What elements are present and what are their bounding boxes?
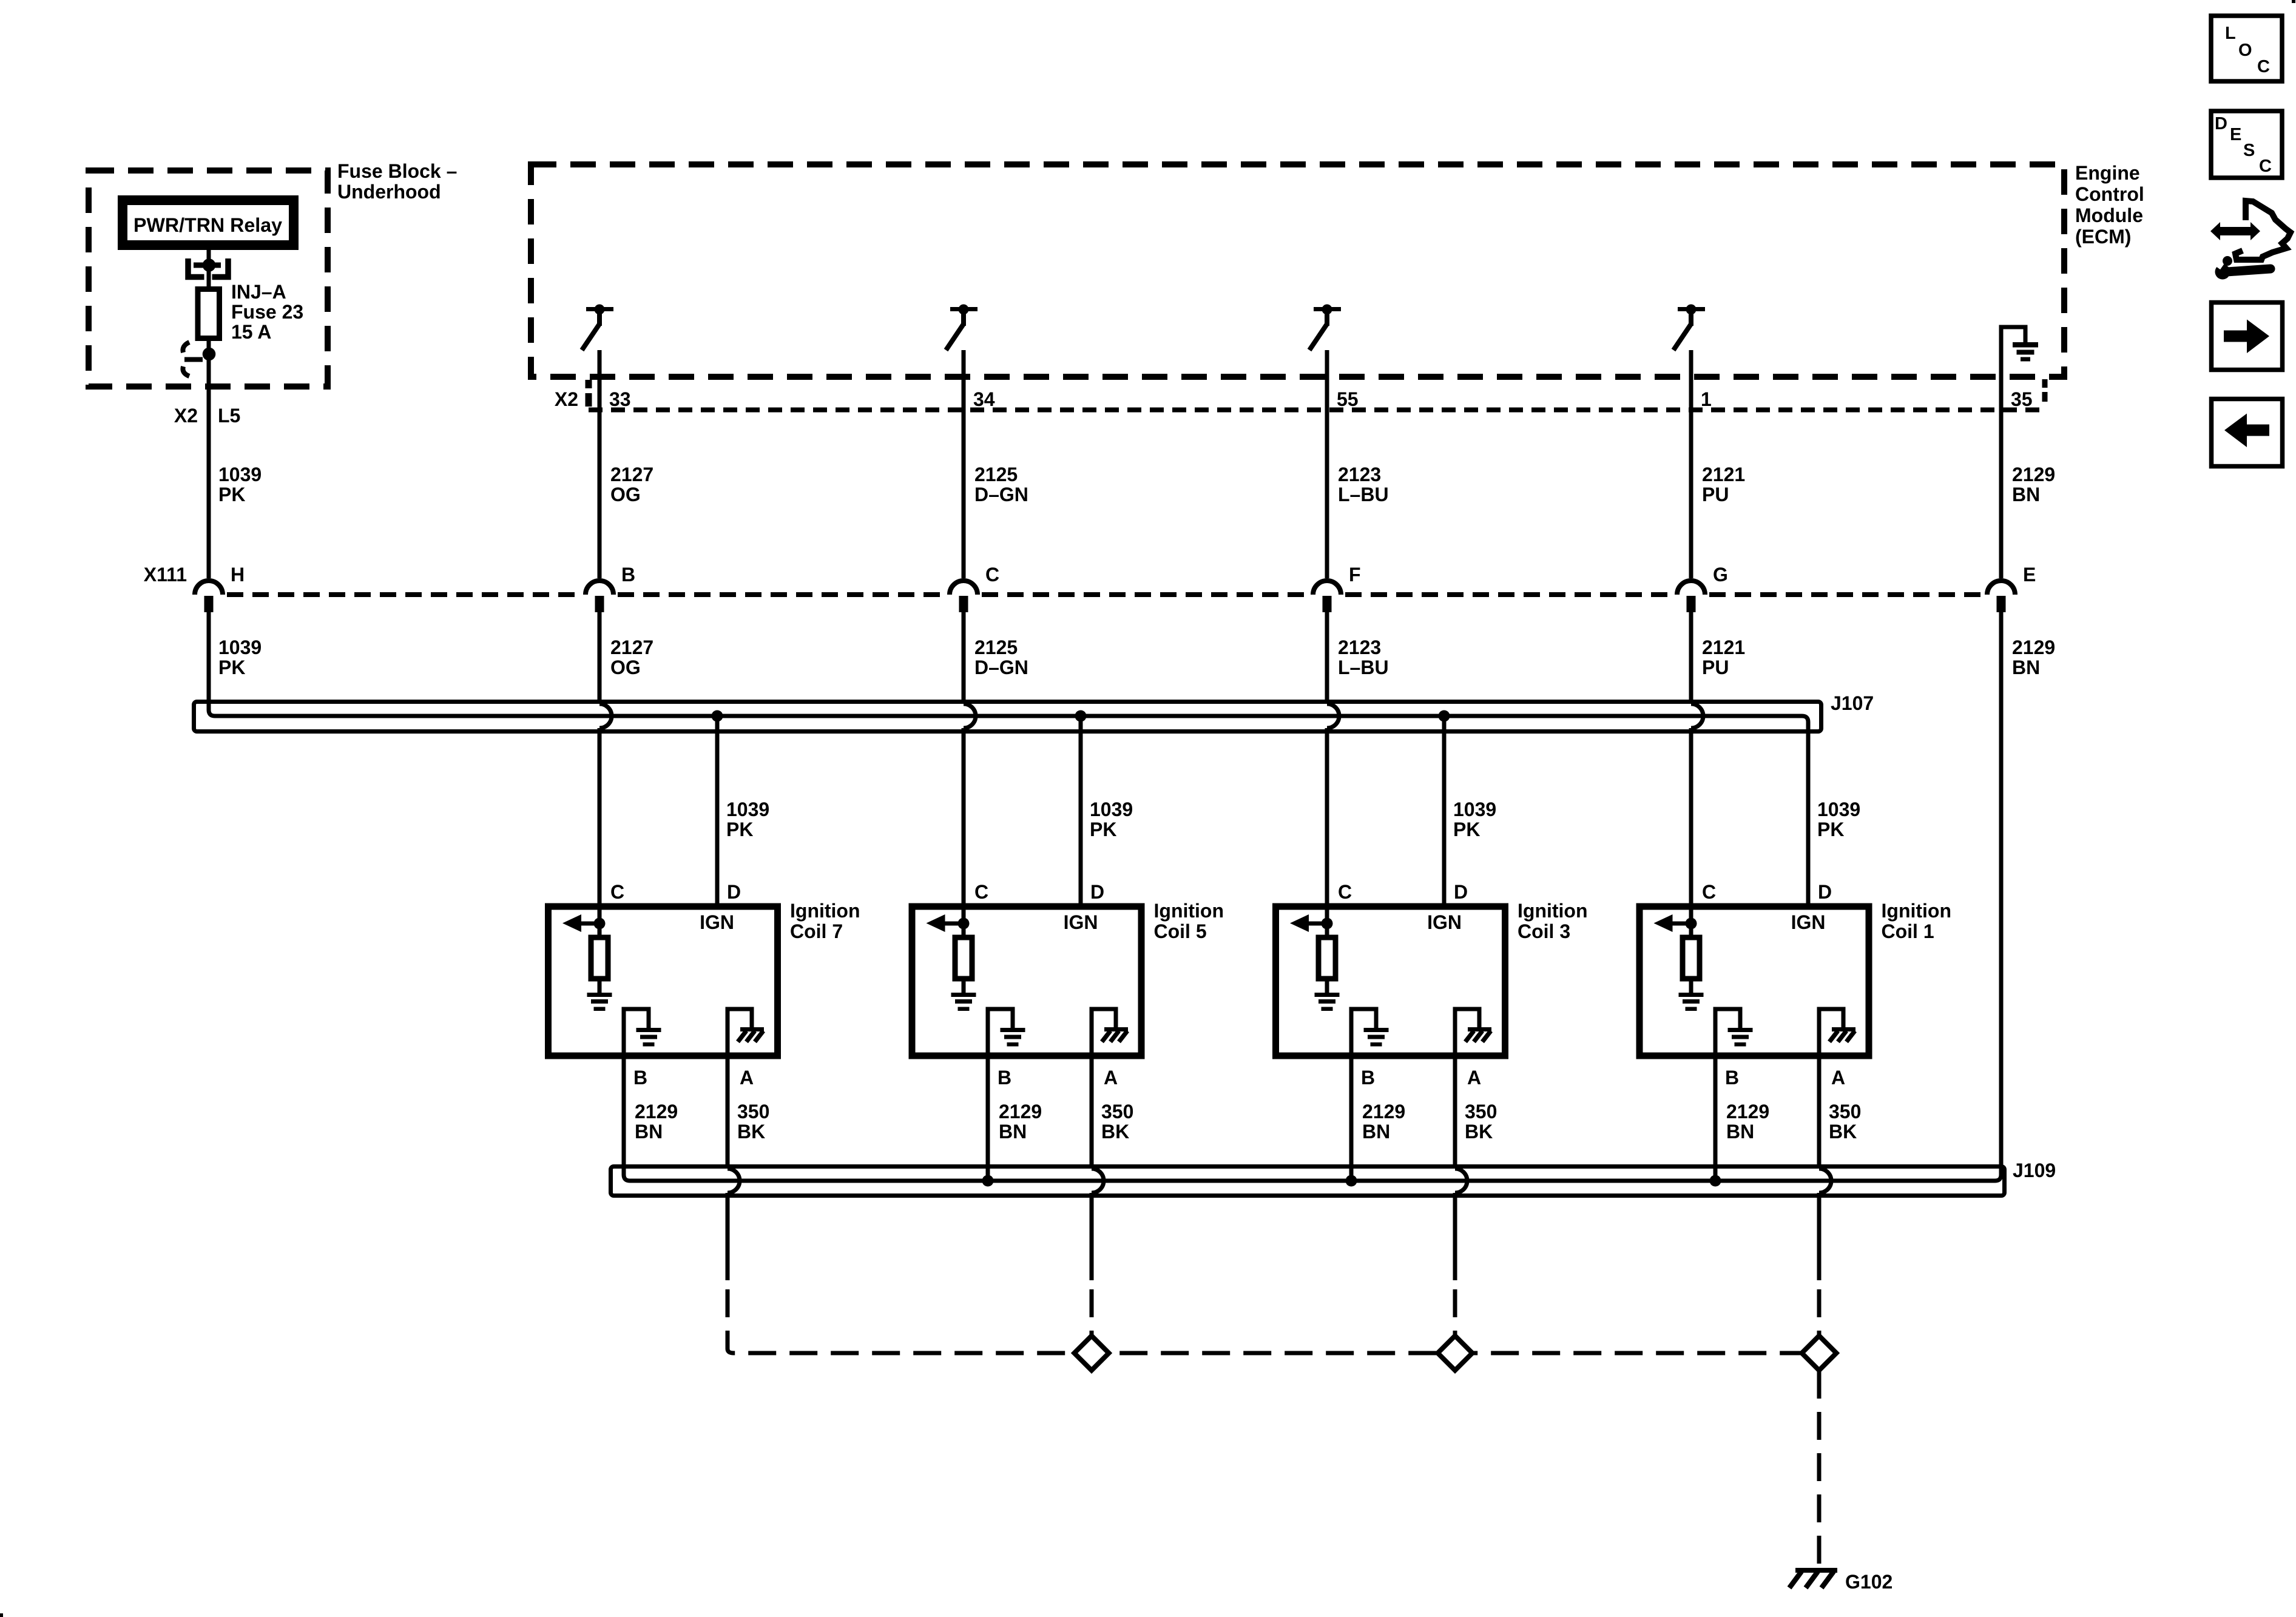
X111 pin H [195, 581, 223, 595]
coil 3 pin D [1454, 881, 1468, 903]
svg-text:BK: BK [737, 1121, 765, 1143]
coil 3 pin A chassis ground [1455, 1009, 1479, 1059]
coil 1 internal ground [1679, 993, 1704, 1011]
svg-text:1039: 1039 [218, 464, 262, 485]
svg-text:A: A [1831, 1067, 1845, 1089]
label Fuse Block - Underhood [337, 160, 457, 203]
X111 pin C [950, 581, 977, 595]
svg-text:2129: 2129 [1362, 1101, 1405, 1122]
J109 splice dot at x=2827 [1714, 1059, 1718, 1181]
svg-text:BN: BN [1726, 1121, 1754, 1143]
dashed ground wires below J109 [728, 1289, 1819, 1353]
svg-text:F: F [1349, 564, 1361, 586]
wire 1039 PK fuse block to X111 H [207, 354, 211, 578]
wire relay to fuse [207, 250, 211, 289]
coil 5 pin B hook ground [988, 1009, 1013, 1059]
svg-text:2129: 2129 [999, 1101, 1042, 1122]
svg-text:PWR/TRN Relay: PWR/TRN Relay [133, 214, 282, 236]
wire from switch 2 to X111 [962, 350, 966, 578]
switch driver 1 [586, 307, 613, 311]
svg-text:Coil 7: Coil 7 [790, 920, 843, 942]
svg-text:2123: 2123 [1338, 636, 1381, 658]
svg-text:1: 1 [1701, 388, 1712, 410]
icon DESC box [2211, 111, 2282, 178]
J107 splice dot and branch at x=2380 [1439, 711, 1450, 722]
svg-text:2123: 2123 [1338, 464, 1381, 485]
svg-text:IGN: IGN [1064, 911, 1098, 933]
svg-text:Ignition: Ignition [790, 900, 860, 922]
coil 3 pin C [1338, 881, 1352, 903]
svg-text:OG: OG [610, 484, 641, 505]
fuse INJ-A Fuse 23 15 A [207, 289, 211, 354]
icon arrow right box [2212, 303, 2283, 370]
svg-text:INJ–A: INJ–A [231, 281, 286, 303]
coil 5 pin letters B A [998, 1067, 1118, 1089]
svg-text:PK: PK [1453, 819, 1480, 840]
coil 3 wire 2129 BN / 350 BK labels [1362, 1101, 1497, 1143]
coil 7 internal ground [587, 993, 612, 1011]
svg-text:Coil 3: Coil 3 [1518, 920, 1570, 942]
svg-text:Engine: Engine [2075, 162, 2140, 184]
svg-text:1039: 1039 [218, 636, 262, 658]
svg-text:BN: BN [635, 1121, 663, 1143]
fuse block underhood dashed box [89, 170, 328, 387]
X111 pin F [1313, 581, 1341, 595]
coil 1 internal resistor [1689, 923, 1693, 937]
coil 7 internal resistor [598, 923, 602, 937]
coil 1 pin A chassis ground [1819, 1009, 1843, 1059]
coil 1 pin D [1818, 881, 1832, 903]
coil 5 internal resistor [962, 923, 966, 937]
ignition coil 3 box [1276, 906, 1505, 1056]
J109 splice dot at x=2227 [1349, 1059, 1354, 1181]
svg-text:1039: 1039 [1453, 798, 1496, 820]
svg-text:15 A: 15 A [231, 321, 271, 343]
svg-text:Coil 5: Coil 5 [1154, 920, 1207, 942]
svg-text:E: E [2230, 125, 2241, 144]
svg-text:OG: OG [610, 657, 641, 678]
svg-text:D: D [727, 881, 741, 903]
wire from switch 1 to X111 [598, 350, 602, 578]
svg-text:L–BU: L–BU [1338, 657, 1389, 678]
splice pack J107 [194, 702, 1822, 732]
svg-text:C: C [610, 881, 624, 903]
coil 1 wire 2129 BN / 350 BK labels [1726, 1101, 1861, 1143]
wire hop over J107 at x=988 [598, 612, 602, 704]
svg-text:L–BU: L–BU [1338, 484, 1389, 505]
icon hand with double arrow and wrench [2210, 222, 2260, 240]
svg-text:A: A [740, 1067, 754, 1089]
coil 3 internal ground [1315, 993, 1340, 1011]
svg-text:Module: Module [2075, 204, 2143, 226]
svg-text:IGN: IGN [1427, 911, 1462, 933]
wire hop over J107 at x=2787 [1689, 612, 1693, 704]
svg-text:35: 35 [2011, 388, 2033, 410]
coil 3 internal resistor [1325, 923, 1329, 937]
switch driver 3 [1314, 307, 1341, 311]
J109 splice dot at x=1628 [986, 1059, 990, 1181]
svg-text:BN: BN [1362, 1121, 1390, 1143]
label Engine Control Module (ECM) [2075, 162, 2144, 248]
connector X2 row at ECM [555, 388, 578, 410]
svg-text:2129: 2129 [2012, 636, 2055, 658]
svg-text:IGN: IGN [700, 911, 734, 933]
svg-text:2125: 2125 [974, 636, 1018, 658]
svg-text:X111: X111 [144, 564, 187, 586]
svg-text:C: C [2259, 157, 2272, 176]
wire 1039 PK H into J107 and out to coil1 D [209, 612, 1808, 909]
wire A hop over J109 at x=1799 [1090, 1059, 1094, 1169]
ground splice diamonds [1075, 1336, 1109, 1371]
svg-text:H: H [231, 564, 245, 586]
svg-text:E: E [2023, 564, 2036, 586]
svg-text:BK: BK [1465, 1121, 1493, 1143]
coil 7 pin B hook ground [624, 1009, 649, 1059]
coil 7 pin letters B A [633, 1067, 754, 1089]
svg-text:B: B [998, 1067, 1011, 1089]
svg-text:Control: Control [2075, 183, 2144, 205]
svg-text:PK: PK [218, 484, 245, 505]
svg-text:G: G [1713, 564, 1728, 586]
lower wire labels [218, 636, 2055, 678]
svg-text:Underhood: Underhood [337, 181, 441, 203]
X111 pin B [586, 581, 613, 595]
coil 5 internal ground [951, 993, 976, 1011]
svg-text:350: 350 [737, 1101, 769, 1122]
coil 3 internal arrow [1306, 922, 1327, 926]
svg-text:350: 350 [1465, 1101, 1497, 1122]
svg-text:55: 55 [1337, 388, 1359, 410]
X111 pin E [1987, 581, 2015, 595]
ground G102 chassis symbol [1795, 1568, 1837, 1573]
dashed wire to G102 [1817, 1371, 1822, 1568]
wire hop over J107 at x=2187 [1325, 612, 1329, 704]
clip symbol at fuse output [183, 342, 203, 376]
branch labels 1039 PK [726, 798, 1860, 840]
svg-text:BK: BK [1101, 1121, 1129, 1143]
coil 7 pin D [727, 881, 741, 903]
coil 3 pin B hook ground [1351, 1009, 1376, 1059]
coil 7 internal arrow [578, 922, 599, 926]
svg-text:Ignition: Ignition [1882, 900, 1952, 922]
connector X2 pin L5 labels [174, 405, 240, 427]
svg-text:Ignition: Ignition [1154, 900, 1224, 922]
svg-text:IGN: IGN [1791, 911, 1826, 933]
svg-text:L5: L5 [218, 405, 240, 427]
svg-text:2121: 2121 [1702, 464, 1745, 485]
svg-text:C: C [974, 881, 988, 903]
svg-text:C: C [985, 564, 999, 586]
Engine Control Module dashed box [531, 164, 2064, 377]
svg-text:L: L [2225, 24, 2236, 43]
X111 dashed line [227, 592, 581, 597]
wire hop over J107 at x=1588 [962, 612, 966, 704]
svg-text:G102: G102 [1845, 1571, 1893, 1593]
J107 splice dot and branch at x=1182 [712, 711, 723, 722]
coil 5 internal arrow [942, 922, 964, 926]
wire from switch 3 to X111 [1325, 350, 1329, 578]
svg-text:Fuse Block –: Fuse Block – [337, 160, 457, 182]
svg-text:Fuse 23: Fuse 23 [231, 301, 303, 323]
page mark top right [2292, 0, 2295, 3]
svg-text:2125: 2125 [974, 464, 1018, 485]
svg-text:350: 350 [1829, 1101, 1861, 1122]
coil 5 pin D [1090, 881, 1104, 903]
svg-text:1039: 1039 [726, 798, 769, 820]
svg-text:S: S [2243, 141, 2255, 160]
svg-text:Coil 1: Coil 1 [1882, 920, 1934, 942]
svg-text:D: D [1454, 881, 1468, 903]
icon arrow left box [2212, 399, 2283, 467]
svg-text:BN: BN [2012, 657, 2040, 678]
svg-text:D: D [1090, 881, 1104, 903]
wire A hop over J109 at x=2998 [1817, 1059, 1822, 1169]
svg-text:B: B [1361, 1067, 1375, 1089]
coil 1 pin B hook ground [1715, 1009, 1740, 1059]
splice pack J109 [611, 1167, 2005, 1196]
icon LOC box [2211, 16, 2282, 81]
svg-text:X2: X2 [555, 388, 578, 410]
svg-text:2127: 2127 [610, 636, 653, 658]
ignition coil 5 box [912, 906, 1141, 1056]
svg-text:D–GN: D–GN [974, 484, 1028, 505]
coil 5 wire 2129 BN / 350 BK labels [999, 1101, 1133, 1143]
svg-text:J109: J109 [2013, 1160, 2056, 1181]
svg-text:1039: 1039 [1817, 798, 1860, 820]
connector X111 row [144, 564, 187, 586]
svg-text:D: D [2215, 114, 2227, 133]
coil 1 pin C [1702, 881, 1716, 903]
svg-text:PK: PK [726, 819, 753, 840]
switch driver 2 [950, 307, 977, 311]
svg-text:PK: PK [1817, 819, 1844, 840]
relay contact bracket [188, 258, 228, 277]
svg-text:BN: BN [999, 1121, 1027, 1143]
svg-text:PU: PU [1702, 484, 1729, 505]
svg-text:33: 33 [609, 388, 631, 410]
svg-text:D–GN: D–GN [974, 657, 1028, 678]
svg-text:2129: 2129 [635, 1101, 678, 1122]
coil 7 pin C [610, 881, 624, 903]
X2 dotted pin line [589, 408, 2042, 413]
svg-text:2121: 2121 [1702, 636, 1745, 658]
junction dot fuse output [203, 348, 216, 361]
ignition coil 7 box [549, 906, 778, 1056]
svg-text:C: C [1702, 881, 1716, 903]
svg-text:(ECM): (ECM) [2075, 226, 2131, 248]
svg-text:2127: 2127 [610, 464, 653, 485]
coil 1 internal arrow [1670, 922, 1692, 926]
coil 7 wire 2129 BN / 350 BK labels [635, 1101, 769, 1143]
junction dot relay pin [203, 258, 216, 272]
svg-text:B: B [1725, 1067, 1739, 1089]
svg-text:PK: PK [218, 657, 245, 678]
ignition coil 1 box [1639, 906, 1869, 1056]
svg-text:C: C [2257, 57, 2270, 76]
svg-text:Ignition: Ignition [1518, 900, 1588, 922]
coil 7 pin A chassis ground [728, 1009, 752, 1059]
svg-text:B: B [633, 1067, 647, 1089]
svg-text:A: A [1467, 1067, 1481, 1089]
wire from switch 4 to X111 [1689, 350, 1693, 578]
X111 pin G [1677, 581, 1705, 595]
svg-text:2129: 2129 [2012, 464, 2055, 485]
upper wire labels [610, 464, 2055, 505]
svg-text:350: 350 [1101, 1101, 1133, 1122]
coil 5 pin C [974, 881, 988, 903]
coil 1 pin letters B A [1725, 1067, 1845, 1089]
svg-text:PK: PK [1090, 819, 1116, 840]
wire A hop over J109 at x=1199 [726, 1059, 730, 1169]
svg-text:1039: 1039 [1090, 798, 1133, 820]
svg-text:A: A [1104, 1067, 1118, 1089]
relay PWR/TRN Relay box [123, 200, 294, 245]
J107 splice dot and branch at x=1781 [1075, 711, 1087, 722]
svg-text:BN: BN [2012, 484, 2040, 505]
wire A hop over J109 at x=2398 [1453, 1059, 1457, 1169]
svg-text:BK: BK [1829, 1121, 1857, 1143]
svg-text:34: 34 [973, 388, 995, 410]
svg-text:J107: J107 [1831, 692, 1874, 714]
ECM internal ground pin 35 [2001, 327, 2025, 377]
svg-text:PU: PU [1702, 657, 1729, 678]
switch driver 4 [1678, 307, 1705, 311]
wire E 2129 BN from pin 35 down [1999, 377, 2004, 578]
svg-text:X2: X2 [174, 405, 198, 427]
coil 5 pin A chassis ground [1092, 1009, 1116, 1059]
coil 3 pin letters B A [1361, 1067, 1481, 1089]
wire B coil7 into J109 center line out to E wire [624, 612, 2001, 1181]
svg-text:D: D [1818, 881, 1832, 903]
page mark bottom left [0, 1613, 3, 1617]
svg-text:2129: 2129 [1726, 1101, 1769, 1122]
svg-text:B: B [621, 564, 635, 586]
svg-text:C: C [1338, 881, 1352, 903]
svg-text:O: O [2238, 41, 2252, 60]
